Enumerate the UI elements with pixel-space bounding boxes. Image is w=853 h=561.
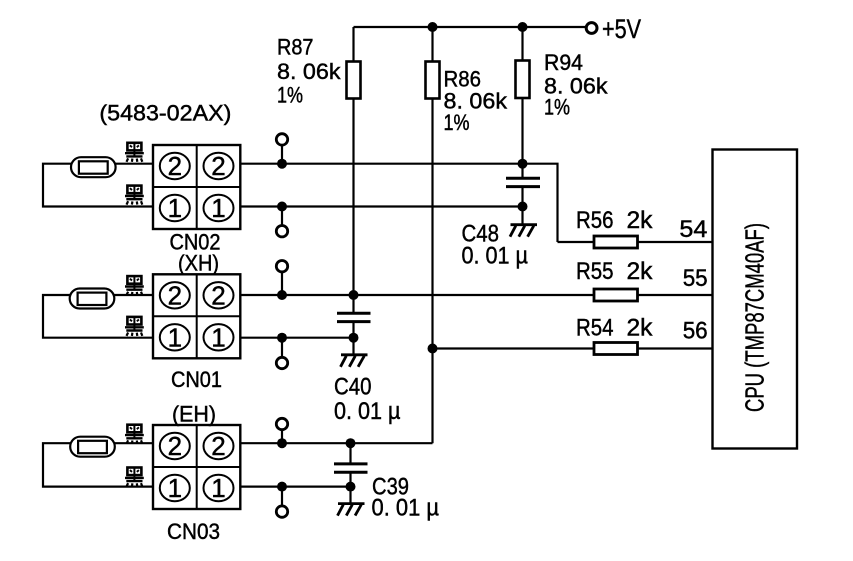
wire CN01 row1 <box>240 337 353 339</box>
capacitor C40 <box>337 313 371 321</box>
svg-text:CN03: CN03 <box>167 519 220 544</box>
wire R94 column <box>521 27 523 178</box>
wire CN02 row2 to corner <box>240 164 557 242</box>
wire stub CN01 upper <box>281 272 283 295</box>
svg-text:R54: R54 <box>576 315 614 342</box>
svg-text:CPU (TMP87CM40AF): CPU (TMP87CM40AF) <box>740 223 770 412</box>
svg-text:R55: R55 <box>576 258 614 285</box>
svg-text:0. 01 µ: 0. 01 µ <box>462 243 529 270</box>
svg-text:CN01: CN01 <box>171 367 222 392</box>
svg-text:54: 54 <box>679 216 707 243</box>
wire stub CN02 lower <box>281 207 283 226</box>
wire stub CN01 lower <box>281 338 283 358</box>
wire CN03 row2 <box>241 442 433 444</box>
resistor R87 <box>347 62 361 99</box>
wire CN02 left loop <box>43 164 153 207</box>
node R86/R54 junction <box>428 344 438 354</box>
test point CN02 lower <box>276 226 287 237</box>
svg-text:(5483-02AX): (5483-02AX) <box>99 101 231 126</box>
resistor R86 <box>426 62 440 99</box>
svg-text:0. 01 µ: 0. 01 µ <box>372 495 440 522</box>
node C48/row1 junction <box>518 202 528 212</box>
wire C39 bottom <box>349 472 351 503</box>
wire top rail <box>354 26 586 28</box>
svg-text:2k: 2k <box>627 258 654 285</box>
node R87/CN01 row2 junction <box>349 290 359 300</box>
ferrite bead CN02 <box>71 157 116 177</box>
capacitor C39 <box>334 464 368 472</box>
connector CN03 <box>153 425 240 509</box>
svg-text:55: 55 <box>683 265 708 292</box>
node CN03 row1 test point <box>277 482 287 492</box>
label hei CN02 pin1 <box>125 186 144 205</box>
svg-text:1%: 1% <box>277 83 303 108</box>
resistor R54 <box>594 343 638 355</box>
resistor R94 <box>516 61 530 99</box>
svg-text:(EH): (EH) <box>172 402 216 427</box>
wire stub CN03 lower <box>281 487 283 506</box>
IC CPU box <box>713 150 798 449</box>
svg-text:1%: 1% <box>544 95 570 120</box>
label hei CN01 pin2 <box>125 276 144 295</box>
node CN03 row2 test point <box>277 438 287 448</box>
test point CN03 lower <box>276 506 287 517</box>
ground C40 <box>341 355 368 367</box>
label hei CN02 pin2 <box>125 143 144 162</box>
resistor R56 <box>558 236 713 248</box>
svg-text:+5V: +5V <box>602 14 641 44</box>
test point CN01 upper <box>276 261 287 272</box>
label hei CN03 pin1 <box>125 468 144 487</box>
svg-text:R87: R87 <box>277 35 314 60</box>
svg-text:R94: R94 <box>544 50 583 75</box>
svg-text:R56: R56 <box>576 207 614 234</box>
svg-text:0. 01 µ: 0. 01 µ <box>334 398 401 425</box>
node C39/CN03 row2 junction <box>346 438 356 448</box>
node CN01 row2 test point <box>277 290 287 300</box>
wire R54 row to CPU pin 56 <box>433 347 713 349</box>
svg-text:8. 06k: 8. 06k <box>277 59 342 84</box>
node C40/CN01 row1 junction <box>349 333 359 343</box>
test point CN01 lower <box>276 357 287 368</box>
node CN02 row1 test point <box>277 202 287 212</box>
wire R86 column <box>431 27 433 443</box>
wire CN01 left loop <box>43 295 153 338</box>
svg-text:(XH): (XH) <box>178 251 219 276</box>
node top rail / R94 <box>518 22 528 32</box>
svg-text:C40: C40 <box>334 374 372 401</box>
wire C40 bottom <box>352 322 354 355</box>
ferrite bead CN03 <box>70 437 115 457</box>
wire CN03 left loop <box>43 443 153 486</box>
svg-text:1%: 1% <box>444 110 470 135</box>
ferrite bead CN01 <box>70 289 115 309</box>
node top rail / R86 <box>428 22 438 32</box>
connector CN02 <box>153 145 240 229</box>
wire stub CN02 upper <box>281 145 283 164</box>
wire CN01 row2 to CPU pin 55 <box>240 294 712 296</box>
svg-text:56: 56 <box>683 318 708 345</box>
wire stub C48 to ground <box>521 187 523 225</box>
svg-text:2k: 2k <box>627 315 654 342</box>
wire CN02 row1 <box>240 205 522 207</box>
capacitor C48 <box>506 178 540 186</box>
connector CN01 <box>153 274 240 358</box>
resistor R55 <box>594 289 638 301</box>
svg-text:2k: 2k <box>627 207 654 234</box>
ground C39 <box>338 504 365 516</box>
wire R87 column <box>352 27 354 313</box>
wire stub CN03 upper <box>281 430 283 444</box>
node C39/CN03 row1 junction <box>346 482 356 492</box>
wire C39 column <box>349 443 351 464</box>
test point CN03 upper <box>276 418 287 429</box>
node R94/row2 junction <box>518 159 528 169</box>
label hei CN03 pin2 <box>125 425 144 444</box>
label hei CN01 pin1 <box>125 317 144 336</box>
ground C48 <box>510 225 537 237</box>
wire CN03 row1 <box>241 486 351 488</box>
node CN02 row2 test point <box>277 159 287 169</box>
terminal +5V <box>586 23 597 34</box>
test point CN02 upper <box>276 134 287 145</box>
node CN01 row1 test point <box>277 333 287 343</box>
